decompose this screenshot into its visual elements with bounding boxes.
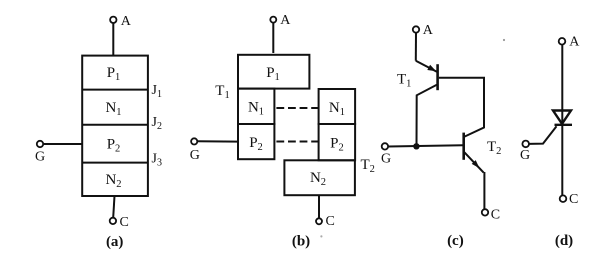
thyristor triangle	[553, 111, 571, 124]
dashed link N1-N1	[276, 107, 318, 109]
speck artifact right of (c) top	[503, 39, 505, 41]
wire gate (b)	[197, 140, 238, 142]
transistor T1 base bar	[436, 64, 439, 90]
svg-text:A: A	[569, 35, 580, 50]
svg-text:A: A	[121, 14, 132, 29]
N1 box left (b)	[238, 89, 274, 124]
P2 box left (b)	[238, 124, 274, 159]
wire gate (c)	[388, 145, 463, 146]
terminal A (b)	[270, 17, 276, 23]
svg-text:G: G	[381, 152, 391, 167]
wire emitter T1 diagonal	[416, 61, 437, 72]
svg-text:(c): (c)	[447, 233, 464, 249]
N1 box right (b)	[319, 89, 356, 124]
svg-text:G: G	[190, 148, 200, 163]
thyristor cathode bar	[555, 124, 573, 126]
wire cathode (a)	[113, 196, 114, 218]
terminal A (d)	[559, 38, 566, 45]
node junction dot	[413, 143, 419, 149]
P2 box right (b)	[319, 124, 356, 160]
wire T1 base to T2 collector	[439, 78, 484, 137]
svg-text:A: A	[280, 13, 291, 28]
terminal G (c)	[382, 143, 388, 149]
svg-text:(a): (a)	[106, 234, 124, 250]
wire gate (a)	[43, 143, 82, 145]
dashed link P2-P2	[276, 141, 318, 143]
transistor T2 base bar	[462, 133, 465, 160]
wire cathode (b)	[318, 195, 320, 218]
speck artifact right of (b) caption	[320, 235, 322, 237]
svg-text:A: A	[423, 23, 434, 38]
terminal C (d)	[560, 195, 567, 202]
N2 box T2 (b)	[284, 160, 355, 195]
terminal C (a)	[110, 218, 116, 224]
svg-text:C: C	[569, 192, 578, 207]
terminal G (b)	[191, 138, 197, 144]
wire emitter T1 vertical	[415, 33, 417, 61]
svg-text:(d): (d)	[555, 233, 573, 249]
wire emitter T2 vertical	[483, 172, 485, 209]
wire gate (d)	[529, 126, 557, 144]
P1 box T1 (b)	[238, 55, 309, 89]
terminal C (b)	[316, 218, 322, 224]
terminal G (a)	[37, 141, 43, 147]
svg-text:C: C	[120, 215, 129, 230]
layer stack outline (a)	[82, 56, 148, 196]
svg-text:C: C	[491, 207, 500, 222]
junction J1 divider	[82, 89, 148, 91]
terminal G (d)	[522, 141, 529, 148]
svg-text:G: G	[35, 150, 45, 165]
wire anode (a)	[112, 23, 114, 56]
svg-text:(b): (b)	[292, 234, 310, 250]
emitter arrow T2	[472, 160, 480, 168]
wire T1 collector	[417, 85, 437, 147]
junction J3 divider	[82, 162, 148, 164]
svg-text:G: G	[520, 148, 530, 163]
emitter arrow T1	[427, 65, 436, 72]
terminal C (c)	[482, 209, 488, 215]
svg-text:C: C	[326, 214, 335, 229]
terminal A (c)	[413, 26, 419, 32]
wire anode (b)	[272, 23, 274, 53]
junction J2 divider	[82, 124, 148, 126]
wire anode-cathode (d)	[561, 45, 563, 196]
wire emitter T2 diagonal	[464, 152, 483, 172]
terminal A (a)	[110, 17, 116, 23]
